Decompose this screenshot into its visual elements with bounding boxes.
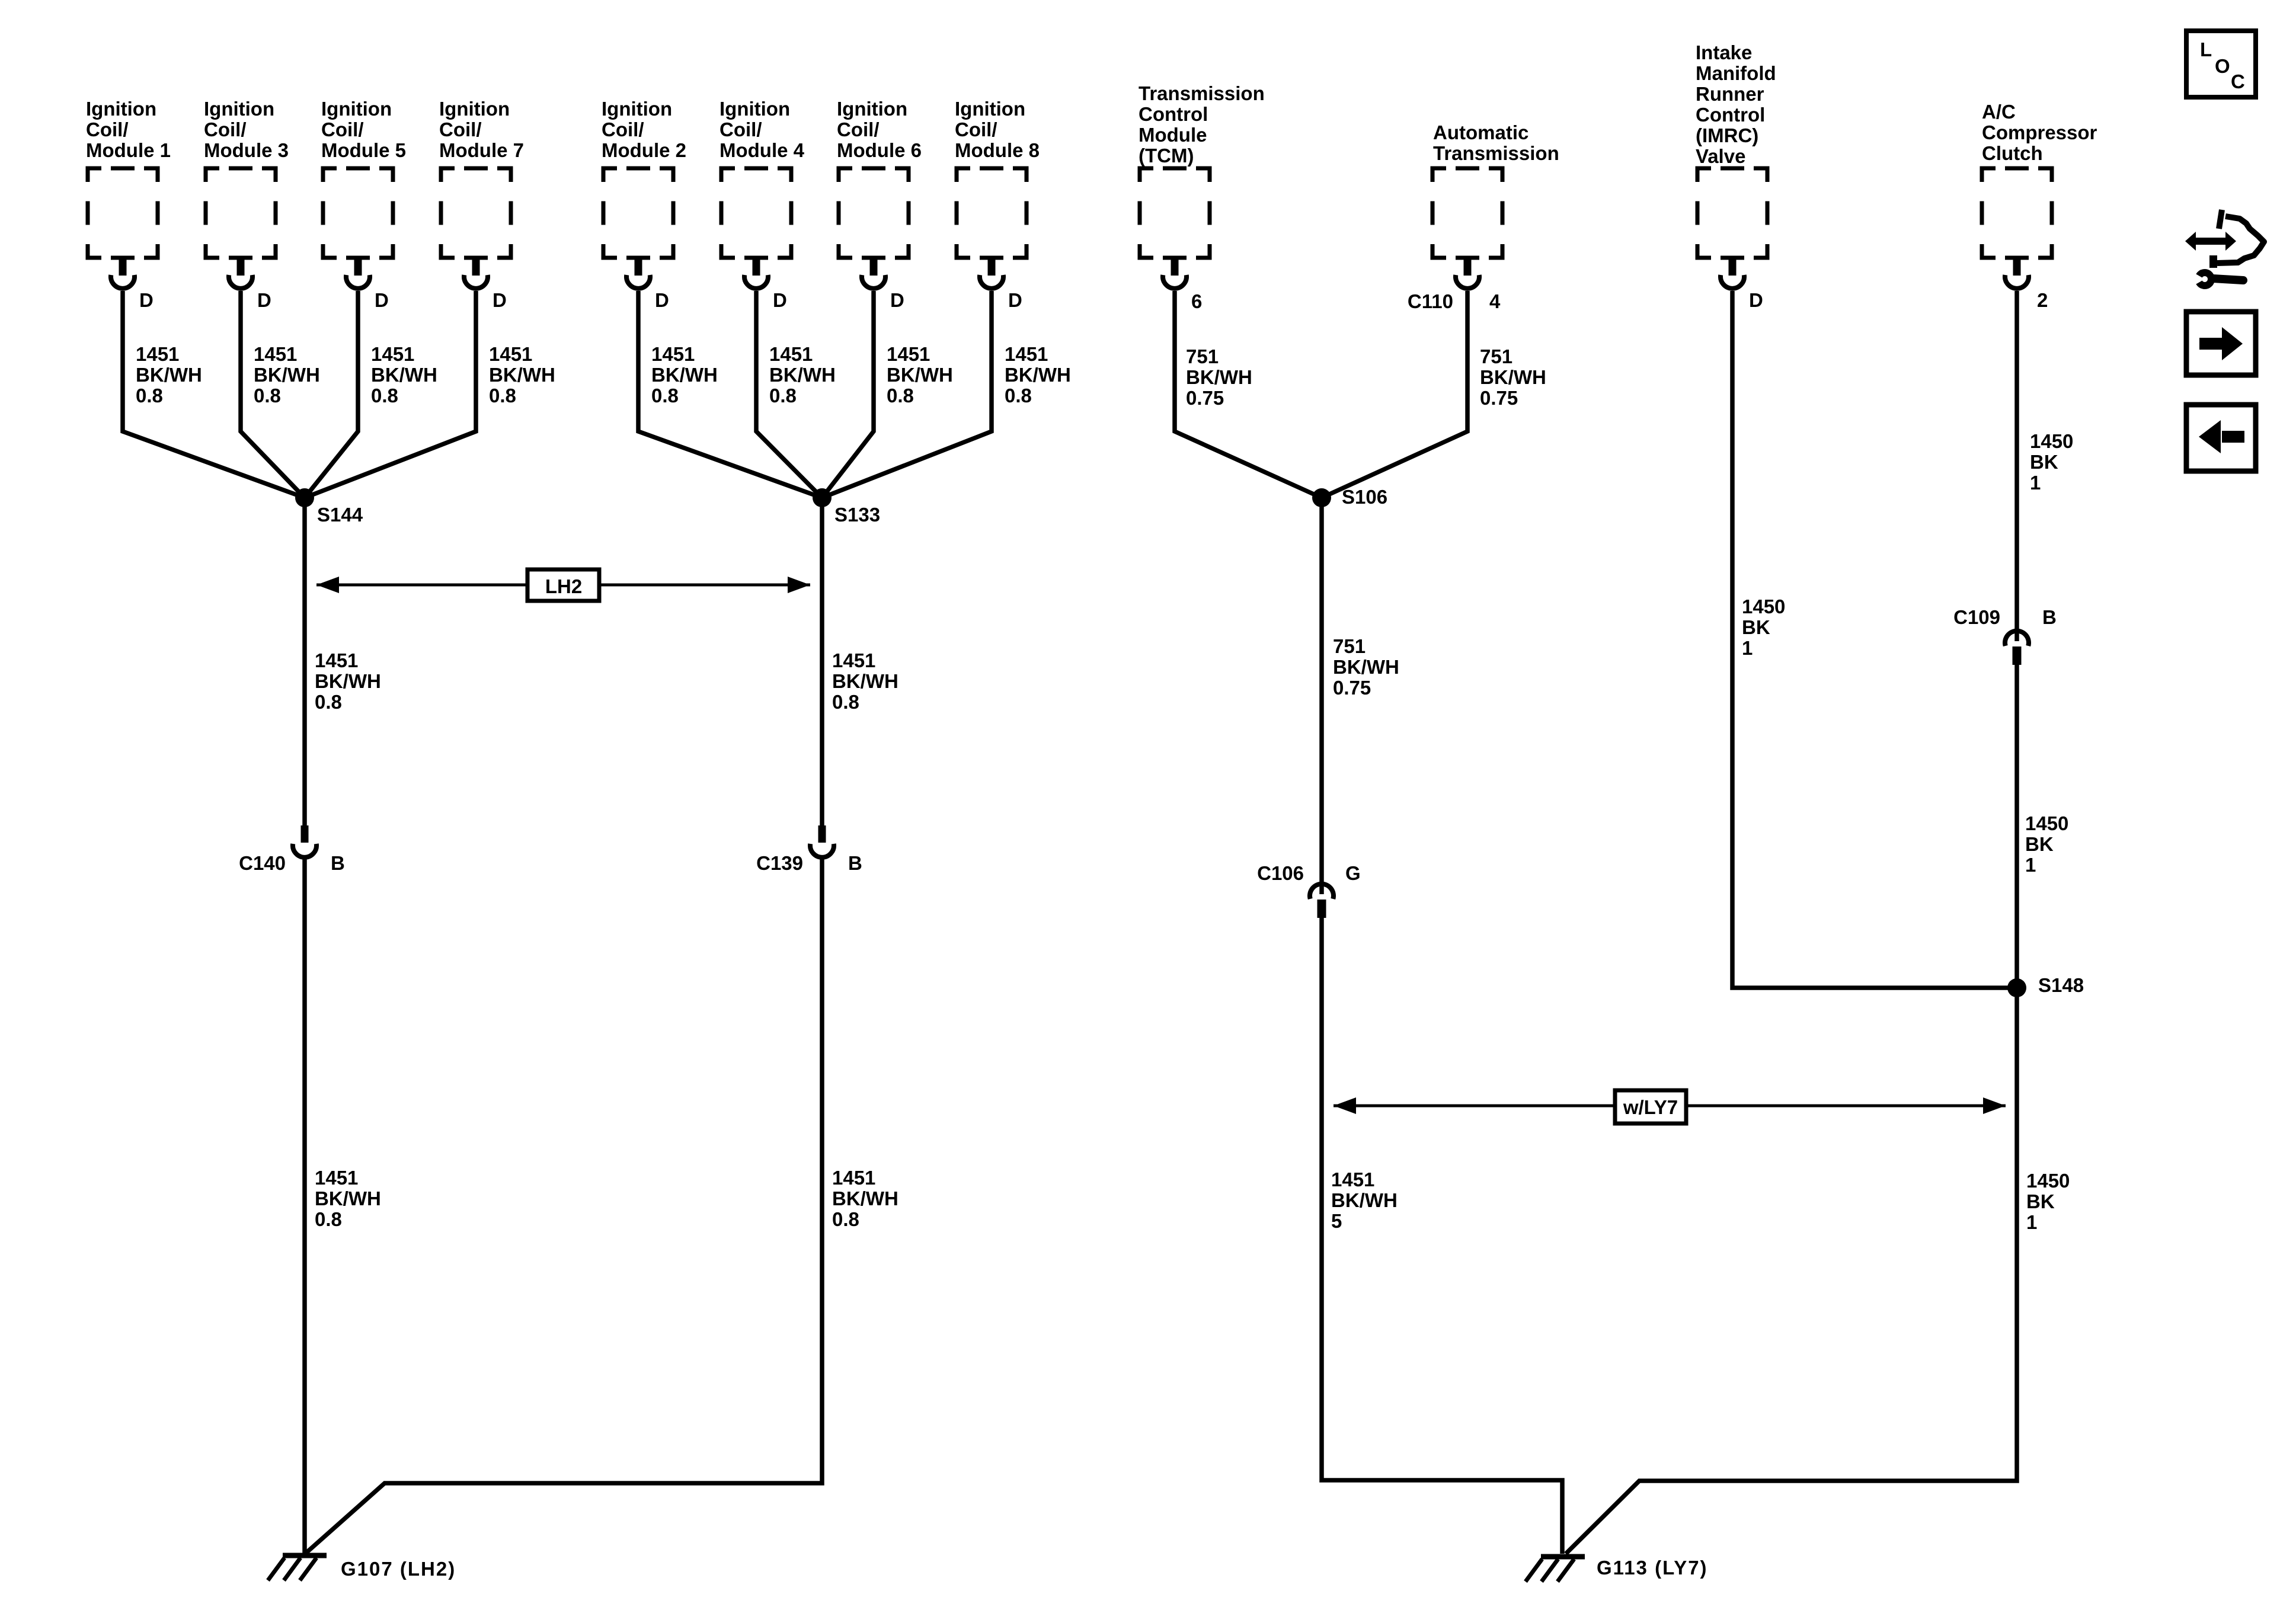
- pin label D (module 4): [773, 289, 787, 311]
- svg-text:Automatic: Automatic: [1433, 121, 1528, 143]
- pin label B (C140): [331, 852, 345, 874]
- splice label S133: [834, 504, 880, 526]
- svg-text:Coil/: Coil/: [837, 119, 880, 140]
- svg-text:Ignition: Ignition: [439, 98, 510, 120]
- svg-text:1451: 1451: [254, 343, 297, 365]
- svg-text:Control: Control: [1139, 103, 1208, 125]
- splice label S106: [1342, 486, 1387, 508]
- svg-text:Ignition: Ignition: [86, 98, 156, 120]
- wire label 1450 BK 1 (between C109 and S148): [2025, 812, 2068, 876]
- wire 1451 BK/WH 0.8 from module 2 to S133: [638, 291, 822, 498]
- pin label D (module 5): [375, 289, 389, 311]
- component box: Ignition Coil/Module 4: [721, 168, 791, 258]
- connector pin D of module 5: [346, 258, 370, 289]
- svg-text:B: B: [848, 852, 862, 874]
- component box: Ignition Coil/Module 1: [88, 168, 158, 258]
- svg-text:D: D: [139, 289, 154, 311]
- connector pin 6 of TCM: [1163, 258, 1187, 289]
- svg-text:BK/WH: BK/WH: [832, 670, 898, 692]
- wire 1451 BK/WH 0.8 from S144 to C140: [302, 498, 307, 825]
- wire label 751 BK/WH 0.75 (AT): [1480, 345, 1546, 409]
- svg-text:Ignition: Ignition: [720, 98, 790, 120]
- wire label 1451 BK/WH 0.8 (below S144): [315, 649, 381, 713]
- component box: Automatic Transmission: [1432, 168, 1502, 258]
- svg-text:B: B: [331, 852, 345, 874]
- pin label 2 (A/C): [2037, 289, 2048, 311]
- component box: Ignition Coil/Module 5: [323, 168, 393, 258]
- svg-text:Coil/: Coil/: [720, 119, 762, 140]
- ground G113: [1526, 1557, 1585, 1582]
- svg-text:D: D: [257, 289, 271, 311]
- LOC page icon box: [2186, 31, 2256, 97]
- connector pin D of module 3: [229, 258, 252, 289]
- wire label 1451 BK/WH 0.8 (module 4): [769, 343, 836, 406]
- connector pin D of module 2: [626, 258, 650, 289]
- svg-text:0.8: 0.8: [315, 691, 342, 713]
- connector label C109: [1953, 606, 2000, 628]
- component box: A/C Compressor Clutch: [1982, 168, 2052, 258]
- splice S133: [813, 488, 832, 507]
- svg-text:S144: S144: [317, 504, 363, 526]
- svg-text:1451: 1451: [315, 1167, 358, 1189]
- inline connector C109 pin B: [2005, 629, 2029, 665]
- pin label 6 (TCM): [1191, 290, 1202, 312]
- svg-text:BK/WH: BK/WH: [489, 364, 555, 386]
- svg-text:LH2: LH2: [545, 575, 582, 597]
- svg-text:Control: Control: [1696, 104, 1765, 126]
- wire label 1450 BK 1 (IMRC): [1742, 596, 1785, 659]
- wire 751 BK/WH 0.75 from TCM to S106: [1175, 291, 1322, 498]
- wire label 1451 BK/WH 0.8 (module 7): [489, 343, 555, 406]
- svg-text:B: B: [2042, 606, 2057, 628]
- splice label S148: [2038, 974, 2084, 996]
- svg-text:D: D: [1008, 289, 1022, 311]
- wire label 1451 BK/WH 0.8 (above G107): [315, 1167, 381, 1230]
- wire label 751 BK/WH 0.75 (below S106): [1333, 635, 1399, 699]
- svg-text:L: L: [2200, 39, 2212, 60]
- svg-text:BK/WH: BK/WH: [769, 364, 836, 386]
- svg-text:Ignition: Ignition: [204, 98, 274, 120]
- wire label 1451 BK/WH 0.8 (module 5): [371, 343, 437, 406]
- svg-text:BK/WH: BK/WH: [1331, 1189, 1398, 1211]
- pin label D (module 7): [493, 289, 507, 311]
- wire 1450 BK 1 from A/C clutch to C109: [2014, 291, 2019, 629]
- wire 1451 BK/WH 0.8 from C140 to G107: [302, 859, 307, 1553]
- svg-text:BK: BK: [2026, 1190, 2055, 1212]
- wire label 1451 BK/WH 0.8 (module 6): [887, 343, 953, 406]
- svg-text:1451: 1451: [136, 343, 179, 365]
- ignition coil/module 2 label: [602, 98, 686, 161]
- component box: Ignition Coil/Module 6: [839, 168, 909, 258]
- LH2 box text: [545, 575, 582, 597]
- svg-text:C110: C110: [1408, 290, 1453, 312]
- svg-text:1451: 1451: [832, 1167, 875, 1189]
- ignition coil/module 5 label: [321, 98, 406, 161]
- forward page icon: [2186, 312, 2256, 375]
- connector pin 2 of A/C compressor clutch: [2005, 258, 2029, 289]
- w/LY7 box: [1615, 1090, 1686, 1124]
- component box: IMRC Valve: [1697, 168, 1767, 258]
- wire label 1450 BK 1 (above C109): [2030, 430, 2073, 494]
- svg-text:Coil/: Coil/: [602, 119, 644, 140]
- wire label 751 BK/WH 0.75 (TCM): [1186, 345, 1252, 409]
- ignition coil/module 7 label: [439, 98, 524, 161]
- svg-text:D: D: [493, 289, 507, 311]
- svg-text:0.8: 0.8: [832, 1208, 859, 1230]
- svg-text:5: 5: [1331, 1210, 1342, 1232]
- svg-text:D: D: [1749, 289, 1763, 311]
- connector pin D of IMRC valve: [1721, 258, 1744, 289]
- svg-text:Transmission: Transmission: [1139, 82, 1265, 104]
- wire label 1451 BK/WH 0.8 (module 8): [1005, 343, 1071, 406]
- LH2 arrowhead right: [788, 577, 810, 593]
- svg-text:0.8: 0.8: [315, 1208, 342, 1230]
- svg-text:C: C: [2231, 71, 2245, 92]
- inline connector C140 pin B: [293, 825, 316, 857]
- svg-text:C139: C139: [756, 852, 803, 874]
- svg-text:C109: C109: [1953, 606, 2000, 628]
- inline connector C139 pin B: [810, 825, 834, 857]
- svg-text:1451: 1451: [832, 649, 875, 671]
- svg-text:0.75: 0.75: [1186, 387, 1224, 409]
- svg-text:S148: S148: [2038, 974, 2084, 996]
- svg-text:1: 1: [1742, 637, 1753, 659]
- svg-text:Module 6: Module 6: [837, 139, 922, 161]
- wire label 1451 BK/WH 0.8 (below S133): [832, 649, 898, 713]
- svg-text:751: 751: [1480, 345, 1512, 367]
- splice S148: [2007, 978, 2026, 997]
- svg-text:Manifold: Manifold: [1696, 62, 1776, 84]
- svg-text:1451: 1451: [489, 343, 532, 365]
- svg-text:D: D: [655, 289, 669, 311]
- component box: TCM: [1140, 168, 1210, 258]
- svg-text:BK: BK: [2025, 833, 2054, 855]
- pin label D (module 6): [890, 289, 904, 311]
- wire 751 BK/WH 0.75 from Automatic Transmission to S106: [1322, 291, 1467, 498]
- ignition coil/module 1 label: [86, 98, 171, 161]
- svg-text:0.8: 0.8: [1005, 385, 1032, 406]
- splice S106: [1312, 488, 1331, 507]
- splice label S144: [317, 504, 363, 526]
- wire 1451 BK/WH 0.8 from module 1 to S144: [123, 291, 305, 498]
- connector pin D of module 7: [464, 258, 488, 289]
- ignition coil/module 8 label: [955, 98, 1040, 161]
- connector label C110: [1408, 290, 1453, 312]
- wire 1451 BK/WH 0.8 from module 7 to S144: [305, 291, 476, 498]
- svg-text:S106: S106: [1342, 486, 1387, 508]
- svg-text:0.8: 0.8: [136, 385, 163, 406]
- svg-text:1: 1: [2030, 472, 2041, 494]
- wire 1451 BK/WH 5 from C106 to G113: [1322, 917, 1562, 1554]
- svg-text:Intake: Intake: [1696, 41, 1752, 63]
- IMRC valve label: [1696, 41, 1776, 167]
- svg-text:Compressor: Compressor: [1982, 121, 2097, 143]
- diagram-jump icon (arrow and wrench): [2185, 210, 2264, 286]
- svg-text:Module 7: Module 7: [439, 139, 524, 161]
- svg-text:0.75: 0.75: [1333, 677, 1371, 699]
- pin label G (C106): [1345, 862, 1361, 884]
- svg-text:1450: 1450: [2026, 1170, 2070, 1192]
- svg-text:Module: Module: [1139, 124, 1207, 146]
- wire label 1451 BK/WH 0.8 (module 1): [136, 343, 202, 406]
- LH2 arrowhead left: [316, 577, 339, 593]
- pin label D (module 3): [257, 289, 271, 311]
- inline connector C106 pin G: [1310, 882, 1334, 918]
- svg-text:w/LY7: w/LY7: [1623, 1096, 1678, 1118]
- svg-text:Ignition: Ignition: [955, 98, 1025, 120]
- svg-text:0.75: 0.75: [1480, 387, 1518, 409]
- svg-text:BK/WH: BK/WH: [1186, 366, 1252, 388]
- svg-text:BK/WH: BK/WH: [1005, 364, 1071, 386]
- svg-text:1450: 1450: [1742, 596, 1785, 617]
- svg-text:G107 (LH2): G107 (LH2): [341, 1558, 456, 1580]
- svg-text:BK/WH: BK/WH: [136, 364, 202, 386]
- svg-text:0.8: 0.8: [651, 385, 679, 406]
- wire 1450 BK 1 from IMRC valve to S148: [1732, 291, 2009, 988]
- wire 1451 BK/WH 0.8 from S133 to C139: [820, 498, 824, 825]
- svg-text:1450: 1450: [2030, 430, 2073, 452]
- svg-text:A/C: A/C: [1982, 101, 2016, 123]
- wire label 1451 BK/WH 0.8 (module 3): [254, 343, 320, 406]
- pin label D (module 8): [1008, 289, 1022, 311]
- A/C Compressor Clutch label: [1982, 101, 2097, 164]
- svg-text:S133: S133: [834, 504, 880, 526]
- svg-text:0.8: 0.8: [832, 691, 859, 713]
- connector pin D of module 1: [111, 258, 135, 289]
- svg-text:Module 8: Module 8: [955, 139, 1040, 161]
- pin label D (IMRC): [1749, 289, 1763, 311]
- svg-text:1450: 1450: [2025, 812, 2068, 834]
- wire label 1451 BK/WH 0.8 (above G107 right leg): [832, 1167, 898, 1230]
- svg-text:1451: 1451: [651, 343, 695, 365]
- svg-text:Module 5: Module 5: [321, 139, 406, 161]
- svg-text:BK/WH: BK/WH: [651, 364, 718, 386]
- svg-text:(TCM): (TCM): [1139, 145, 1194, 167]
- svg-text:751: 751: [1186, 345, 1219, 367]
- svg-text:BK/WH: BK/WH: [315, 670, 381, 692]
- svg-text:BK: BK: [1742, 616, 1770, 638]
- component box: Ignition Coil/Module 2: [603, 168, 673, 258]
- svg-text:Coil/: Coil/: [204, 119, 247, 140]
- svg-text:BK/WH: BK/WH: [315, 1188, 381, 1209]
- svg-text:Module 4: Module 4: [720, 139, 805, 161]
- ground label G113 (LY7): [1597, 1557, 1708, 1579]
- wire 1451 BK/WH 0.8 from C139 down and left to G107: [306, 859, 822, 1553]
- svg-text:BK/WH: BK/WH: [832, 1188, 898, 1209]
- pin label B (C139): [848, 852, 862, 874]
- component box: Ignition Coil/Module 3: [206, 168, 276, 258]
- splice S144: [295, 488, 314, 507]
- svg-text:0.8: 0.8: [769, 385, 797, 406]
- connector pin 4 of Automatic Transmission (C110): [1456, 258, 1479, 289]
- svg-text:O: O: [2215, 55, 2230, 77]
- pin label D (module 1): [139, 289, 154, 311]
- svg-text:2: 2: [2037, 289, 2048, 311]
- svg-text:0.8: 0.8: [887, 385, 914, 406]
- svg-text:Valve: Valve: [1696, 145, 1745, 167]
- svg-text:1451: 1451: [315, 649, 358, 671]
- svg-text:1451: 1451: [769, 343, 813, 365]
- svg-text:Module 3: Module 3: [204, 139, 289, 161]
- LH2 range arrow line: [316, 584, 810, 587]
- connector label C140: [239, 852, 286, 874]
- connector label C106: [1257, 862, 1304, 884]
- connector pin D of module 4: [744, 258, 768, 289]
- svg-text:Ignition: Ignition: [602, 98, 672, 120]
- svg-text:G: G: [1345, 862, 1361, 884]
- ignition coil/module 3 label: [204, 98, 289, 161]
- svg-text:BK: BK: [2030, 451, 2058, 473]
- svg-text:0.8: 0.8: [254, 385, 281, 406]
- svg-text:BK/WH: BK/WH: [1333, 656, 1399, 678]
- svg-text:BK/WH: BK/WH: [1480, 366, 1546, 388]
- svg-text:Ignition: Ignition: [321, 98, 392, 120]
- wire 1451 BK/WH 0.8 from module 3 to S144: [241, 291, 305, 498]
- svg-text:C106: C106: [1257, 862, 1304, 884]
- svg-text:Coil/: Coil/: [321, 119, 364, 140]
- svg-text:1451: 1451: [887, 343, 930, 365]
- svg-text:BK/WH: BK/WH: [371, 364, 437, 386]
- wire 1451 BK/WH 0.8 from module 6 to S133: [822, 291, 874, 498]
- component box: Ignition Coil/Module 7: [441, 168, 511, 258]
- wire label 1451 BK/WH 5: [1331, 1169, 1398, 1232]
- connector label C139: [756, 852, 803, 874]
- svg-text:1451: 1451: [371, 343, 414, 365]
- svg-text:(IMRC): (IMRC): [1696, 124, 1758, 146]
- wire 1450 BK 1 from C109 through S148 to G113: [1566, 664, 2017, 1554]
- svg-text:BK/WH: BK/WH: [254, 364, 320, 386]
- svg-text:4: 4: [1489, 290, 1501, 312]
- pin label 4: [1489, 290, 1501, 312]
- svg-text:Module 2: Module 2: [602, 139, 686, 161]
- svg-text:Ignition: Ignition: [837, 98, 907, 120]
- svg-text:Coil/: Coil/: [955, 119, 997, 140]
- pin label B (C109): [2042, 606, 2057, 628]
- svg-text:Coil/: Coil/: [86, 119, 129, 140]
- svg-text:Module 1: Module 1: [86, 139, 171, 161]
- w/LY7 arrowhead left: [1334, 1097, 1356, 1114]
- wire 751 BK/WH 0.75 from S106 to C106: [1319, 498, 1324, 882]
- w/LY7 box text: [1623, 1096, 1678, 1118]
- ground label G107 (LH2): [341, 1558, 456, 1580]
- svg-text:0.8: 0.8: [371, 385, 398, 406]
- svg-text:1451: 1451: [1005, 343, 1048, 365]
- svg-text:D: D: [773, 289, 787, 311]
- svg-text:1: 1: [2025, 854, 2036, 876]
- ignition coil/module 6 label: [837, 98, 922, 161]
- TCM label: [1139, 82, 1265, 167]
- svg-text:1: 1: [2026, 1211, 2037, 1233]
- component box: Ignition Coil/Module 8: [957, 168, 1027, 258]
- svg-text:D: D: [375, 289, 389, 311]
- svg-text:Clutch: Clutch: [1982, 142, 2043, 164]
- svg-text:Transmission: Transmission: [1433, 142, 1559, 164]
- svg-text:6: 6: [1191, 290, 1202, 312]
- svg-text:BK/WH: BK/WH: [887, 364, 953, 386]
- connector pin D of module 8: [980, 258, 1003, 289]
- wire 1451 BK/WH 0.8 from module 8 to S133: [822, 291, 992, 498]
- svg-text:Coil/: Coil/: [439, 119, 482, 140]
- w/LY7 range arrow line: [1334, 1105, 2006, 1108]
- ignition coil/module 4 label: [720, 98, 805, 161]
- svg-text:C140: C140: [239, 852, 286, 874]
- back page icon: [2186, 405, 2256, 471]
- svg-text:Runner: Runner: [1696, 83, 1764, 105]
- LOC letters: [2200, 39, 2245, 92]
- LH2 box: [527, 569, 599, 601]
- pin label D (module 2): [655, 289, 669, 311]
- wire 1451 BK/WH 0.8 from module 4 to S133: [756, 291, 822, 498]
- w/LY7 arrowhead right: [1983, 1097, 2006, 1114]
- svg-text:751: 751: [1333, 635, 1366, 657]
- ground G107: [268, 1555, 327, 1580]
- svg-text:0.8: 0.8: [489, 385, 516, 406]
- Automatic Transmission label: [1433, 121, 1559, 164]
- svg-text:1451: 1451: [1331, 1169, 1374, 1190]
- connector pin D of module 6: [862, 258, 885, 289]
- wire label 1450 BK 1 (below w/LY7): [2026, 1170, 2070, 1233]
- wire label 1451 BK/WH 0.8 (module 2): [651, 343, 718, 406]
- svg-text:D: D: [890, 289, 904, 311]
- svg-text:G113 (LY7): G113 (LY7): [1597, 1557, 1708, 1579]
- wire 1451 BK/WH 0.8 from module 5 to S144: [305, 291, 358, 498]
